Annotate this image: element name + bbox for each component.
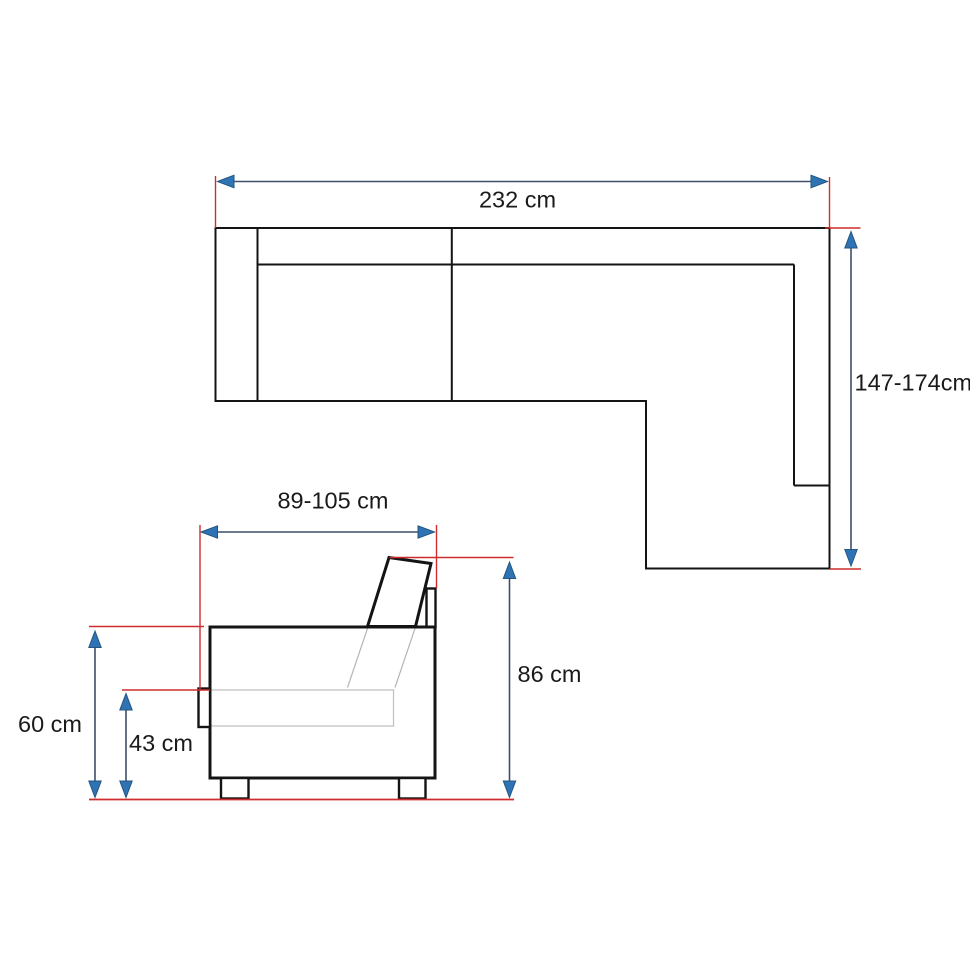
side view: backrest support post bbox=[427, 589, 436, 628]
dimension 147-174cm: top arrowhead bbox=[845, 232, 857, 249]
dimension 232cm: right arrowhead bbox=[811, 175, 828, 188]
dimension 89-105cm: right arrowhead bbox=[418, 526, 435, 538]
dimension 232cm: blue dimension line bbox=[233, 181, 812, 183]
dimension 147-174cm: blue dimension line bbox=[850, 233, 852, 565]
dimension 43cm: top red extension line bbox=[122, 689, 210, 691]
plan view: backrest front line bbox=[258, 264, 795, 266]
dimension 86cm: blue dimension line bbox=[509, 577, 511, 783]
dimension 89-105cm: left arrowhead bbox=[201, 526, 218, 538]
svg-text:147-174cm: 147-174cm bbox=[855, 370, 970, 396]
bottom shared red extension line bbox=[89, 799, 514, 801]
side view: left foot bbox=[221, 778, 249, 799]
dimension 89-105cm: right red extension line bbox=[436, 525, 438, 589]
plan view: seat divider line bbox=[451, 228, 453, 401]
dimension 60cm: top arrowhead bbox=[89, 631, 101, 648]
dimension 232cm: left arrowhead bbox=[218, 175, 235, 188]
svg-text:86 cm: 86 cm bbox=[518, 661, 582, 687]
svg-text:60 cm: 60 cm bbox=[18, 711, 82, 737]
side view: seat cushion gray outline bbox=[212, 690, 394, 726]
dimension 89-105cm: blue dimension line bbox=[216, 531, 419, 533]
dimension 43cm: bottom arrowhead bbox=[120, 781, 132, 798]
side view: backrest continuation left gray line bbox=[348, 627, 369, 688]
dimension 232cm: left red extension line bbox=[215, 176, 217, 228]
dimension 147-174cm: bottom red extension line bbox=[830, 568, 862, 570]
svg-text:89-105 cm: 89-105 cm bbox=[277, 488, 388, 514]
dimension 60cm: bottom arrowhead bbox=[89, 781, 101, 798]
side view: right foot bbox=[399, 778, 426, 799]
plan view: chaise inner horizontal line bbox=[794, 485, 830, 487]
plan view: sofa outer outline (L-shape) bbox=[216, 228, 830, 569]
dimension 147-174cm: bottom arrowhead bbox=[845, 550, 857, 567]
side view: left bedding-box handle bbox=[199, 689, 211, 728]
dimension 147-174cm: top red extension line bbox=[825, 227, 861, 229]
dimension 86cm: top arrowhead bbox=[503, 562, 515, 579]
dimension 43cm: top arrowhead bbox=[120, 694, 132, 711]
dimension 89-105cm: left red extension line bbox=[199, 525, 201, 691]
dimension 232cm: right red extension line bbox=[829, 177, 831, 228]
dimension 60cm: blue dimension line bbox=[94, 646, 96, 783]
dimension 43cm: blue dimension line bbox=[125, 709, 127, 784]
dimension 86cm: top red extension line bbox=[390, 557, 514, 559]
dimension 60cm: top red extension line bbox=[89, 626, 204, 628]
side view: tilted backrest bbox=[368, 558, 432, 627]
side view: backrest continuation right gray line bbox=[395, 627, 416, 688]
side view: sofa body bbox=[210, 627, 435, 778]
plan view: chaise inner vertical line bbox=[793, 265, 795, 486]
plan view: left armrest line bbox=[257, 228, 259, 401]
svg-text:43 cm: 43 cm bbox=[129, 730, 193, 756]
dimension 86cm: bottom arrowhead bbox=[503, 781, 515, 798]
svg-text:232 cm: 232 cm bbox=[479, 187, 556, 213]
